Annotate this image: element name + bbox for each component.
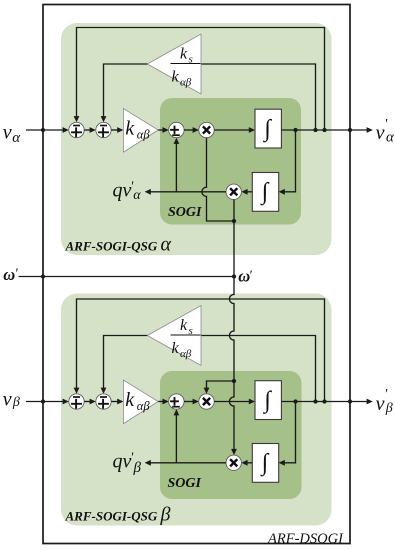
summing junction sum2 alpha — [96, 122, 111, 137]
svg-text:β: β — [12, 395, 20, 410]
label v-beta-prime — [376, 387, 393, 416]
label omega-prime middle — [238, 267, 253, 286]
svg-text:k: k — [180, 317, 188, 334]
label ARF-SOGI-QSG alpha — [65, 234, 172, 256]
svg-text:αβ: αβ — [180, 348, 192, 360]
svg-text:α: α — [386, 130, 395, 146]
svg-text:β: β — [385, 401, 393, 416]
svg-text:ω: ω — [3, 265, 15, 284]
svg-text:SOGI: SOGI — [168, 476, 202, 491]
wire triangle output to sum2 beta — [104, 336, 148, 389]
SOGI alpha block background — [160, 98, 301, 225]
svg-text:αβ: αβ — [137, 399, 151, 413]
integrator 2 beta — [252, 444, 278, 483]
gain ks/kab triangle alpha — [147, 34, 201, 94]
wire ks-triangle feedback beta (output to triangle input) — [201, 336, 316, 402]
junction dot omega branch alpha — [232, 219, 236, 223]
wire top feedback beta (output to sum1) — [77, 299, 325, 402]
summing junction sum1 beta — [69, 394, 84, 409]
wire SOGI sum to mult1 alpha — [184, 129, 193, 131]
ARF-SOGI-QSG beta block background — [61, 294, 332, 526]
wire omega drop into SOGI beta (with hops) — [229, 277, 234, 450]
svg-text:k: k — [180, 46, 188, 63]
svg-text:qv: qv — [113, 180, 132, 202]
gain kab triangle alpha — [123, 109, 158, 153]
svg-text:β: β — [160, 504, 171, 526]
label qv-beta-prime — [113, 451, 142, 477]
summing junction SOGI sum alpha — [169, 122, 184, 137]
junction dot omega at border — [41, 274, 45, 278]
wire sum2 to gain kab beta — [111, 401, 117, 403]
ARF-SOGI-QSG alpha block background — [61, 23, 332, 255]
wire sum1 to sum2 alpha — [84, 129, 90, 131]
wire SOGI sum bottom input alpha — [175, 143, 177, 192]
label qv-alpha-prime — [113, 180, 142, 204]
wire omega rise into SOGI alpha (to mult2 bottom) — [233, 200, 235, 277]
wire qv-alpha output (mult2 to arrow) — [150, 191, 226, 193]
junction dot top tap alpha — [322, 128, 326, 132]
wire omega branch to mult1 alpha (with hop over qv line) — [202, 138, 234, 221]
label kab beta — [125, 389, 150, 413]
svg-text:k: k — [172, 69, 180, 86]
label ARF-SOGI-QSG beta — [65, 504, 171, 526]
wire sum2 to gain kab alpha — [111, 129, 117, 131]
gain kab triangle beta — [123, 380, 158, 424]
wire omega branch to mult1 beta — [207, 381, 235, 388]
SOGI beta block background — [160, 371, 302, 499]
junction dot feedback tap beta — [293, 399, 297, 403]
wire omega-prime input horizontal — [19, 276, 234, 278]
wire sum1 to sum2 beta — [84, 401, 90, 403]
svg-text:v: v — [3, 122, 12, 144]
label kab alpha — [125, 118, 150, 142]
wire feedback to integrator2 alpha — [284, 130, 295, 192]
junction dot border beta output — [348, 399, 352, 403]
svg-text:αβ: αβ — [137, 128, 151, 142]
svg-text:ARF-DSOGI: ARF-DSOGI — [267, 531, 344, 547]
svg-text:': ' — [384, 387, 388, 402]
label v-alpha — [3, 122, 22, 147]
wire triangle output to sum2 alpha — [104, 64, 148, 117]
wire gain kab to SOGI sum alpha — [158, 129, 163, 131]
wire v-beta input — [26, 401, 64, 403]
svg-text:β: β — [133, 460, 142, 476]
summing junction SOGI sum beta — [169, 394, 184, 409]
wire SOGI sum to mult1 beta — [184, 401, 193, 403]
wire integrator1 output to v-beta-prime — [281, 401, 367, 403]
junction dot omega branch beta — [232, 379, 236, 383]
integrator 1 beta — [255, 381, 281, 420]
svg-text:αβ: αβ — [180, 77, 192, 89]
svg-text:SOGI: SOGI — [168, 205, 202, 220]
gain ks/kab triangle beta — [147, 306, 201, 366]
wire qv-beta output (mult2 to arrow) — [150, 462, 226, 464]
junction dot triangle tap beta — [313, 399, 317, 403]
junction dot border alpha output — [348, 128, 352, 132]
junction dot v-beta at border — [41, 399, 45, 403]
svg-text:ARF-SOGI-QSG: ARF-SOGI-QSG — [65, 509, 158, 524]
wire top feedback alpha (output to sum1) — [77, 28, 325, 131]
wire mult1 to integrator1 alpha — [214, 129, 249, 131]
svg-text:α: α — [12, 130, 21, 146]
outer box ARF-DSOGI frame — [43, 5, 350, 544]
multiplier mult1 beta — [199, 394, 214, 409]
summing junction sum1 alpha — [69, 122, 84, 137]
svg-text:α: α — [161, 234, 172, 256]
svg-text:v: v — [3, 389, 12, 411]
svg-text:v: v — [376, 122, 385, 144]
multiplier mult1 alpha — [199, 122, 214, 137]
summing junction sum2 beta — [96, 394, 111, 409]
label ks/kab fraction beta — [171, 317, 201, 360]
wire ks-triangle feedback alpha (output to triangle input) — [201, 64, 316, 130]
wire feedback to integrator2 beta — [284, 402, 295, 463]
wire integrator2 to mult2 alpha — [247, 191, 252, 193]
svg-text:α: α — [133, 188, 141, 203]
junction dot omega at distribution node — [232, 274, 236, 278]
multiplier mult2 beta — [226, 455, 241, 470]
wire integrator2 to mult2 beta — [247, 462, 252, 464]
svg-text:k: k — [125, 118, 135, 140]
wire integrator1 output to v-alpha-prime — [281, 129, 367, 131]
multiplier mult2 alpha — [226, 184, 241, 199]
integrator 1 alpha — [255, 109, 281, 148]
wire mult1 to integrator1 beta — [214, 401, 249, 403]
integrator 2 alpha — [252, 173, 278, 212]
svg-text:v: v — [376, 393, 385, 415]
wire gain kab to SOGI sum beta — [158, 401, 163, 403]
svg-text:k: k — [125, 389, 135, 411]
label v-alpha-prime — [376, 117, 395, 146]
svg-text:k: k — [172, 340, 180, 357]
label omega-prime left — [3, 265, 18, 284]
junction dot v-alpha at border — [41, 128, 45, 132]
svg-text:ARF-SOGI-QSG: ARF-SOGI-QSG — [65, 239, 158, 254]
svg-text:': ' — [15, 267, 19, 282]
junction dot top tap beta — [322, 399, 326, 403]
junction dot feedback tap alpha — [293, 128, 297, 132]
label ks/kab fraction alpha — [171, 46, 201, 89]
wire v-alpha input — [26, 129, 64, 131]
junction dot triangle tap alpha — [313, 128, 317, 132]
wire SOGI sum bottom input beta — [175, 415, 177, 463]
svg-text:qv: qv — [113, 451, 132, 473]
label v-beta — [3, 389, 20, 411]
